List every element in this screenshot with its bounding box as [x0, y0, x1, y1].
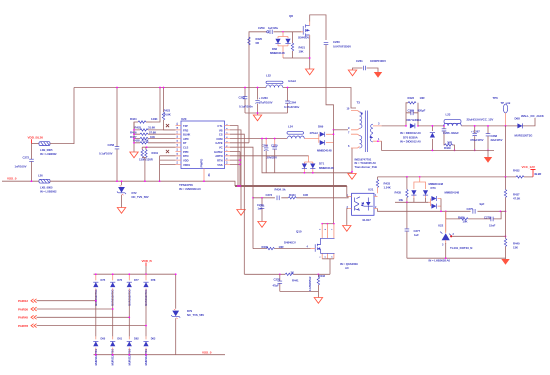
junction T3 return — [351, 171, 353, 173]
svg-text:MURS120T3G: MURS120T3G — [94, 349, 98, 366]
resistor R433 — [376, 177, 390, 193]
svg-text:20V/25V: 20V/25V — [267, 156, 278, 160]
wire VDD_BL26 to bead — [32, 143, 40, 145]
svg-text:IN = UVB0029 A0: IN = UVB0029 A0 — [179, 187, 201, 191]
wire top rail right of L22 — [283, 88, 356, 109]
wire gate-drive top — [249, 32, 301, 46]
svg-text:PAIR78: PAIR78 — [18, 324, 28, 328]
svg-text:4: 4 — [307, 246, 309, 249]
capacitor C274 — [257, 197, 266, 227]
diode D76 — [110, 273, 123, 306]
svg-text:NC_TVS_58V: NC_TVS_58V — [132, 195, 149, 199]
diode D77 — [127, 273, 140, 306]
wire secondary gnd rail — [433, 150, 494, 157]
port PAIR12 — [18, 299, 97, 303]
wire top rail VDD primary — [74, 87, 266, 89]
capacitor C269 — [262, 138, 269, 173]
diode D60 — [93, 336, 106, 365]
junction CLS — [146, 146, 148, 148]
resistor R428 — [133, 138, 176, 144]
svg-text:R431: R431 — [152, 151, 159, 155]
wire VC vertical — [230, 147, 253, 248]
svg-text:0.47uF/100v: 0.47uF/100v — [284, 105, 300, 109]
wire R420 down to rail — [248, 46, 250, 143]
svg-text:D4840CV: D4840CV — [284, 241, 296, 245]
capacitor C265 — [406, 108, 426, 115]
svg-text:T2P: T2P — [183, 124, 188, 128]
svg-text:L23: L23 — [446, 112, 451, 116]
no-connect PPD — [166, 150, 169, 153]
capacitor C268 — [486, 125, 503, 151]
ground cap bank — [253, 115, 261, 121]
svg-text:R424: R424 — [130, 117, 137, 121]
wire COM line to L24 — [230, 138, 287, 140]
svg-text:T3: T3 — [357, 101, 361, 105]
junction VSS/C258 — [116, 180, 118, 182]
port PAIR36 — [18, 307, 114, 311]
svg-text:R429: R429 — [444, 146, 451, 150]
svg-text:MURS120T3G: MURS120T3G — [111, 349, 115, 366]
svg-text:R434_5k: R434_5k — [275, 188, 286, 192]
capacitor C277 — [405, 202, 421, 258]
diode D74 dual — [428, 191, 459, 213]
ferrite bead L26 — [38, 174, 57, 194]
svg-text:18: 18 — [177, 126, 179, 129]
svg-text:3.3uH: 3.3uH — [288, 79, 296, 83]
pin numbers U20 — [176, 122, 229, 164]
wire CTL to opto rail — [230, 126, 238, 186]
svg-text:SI3445DV: SI3445DV — [298, 37, 309, 40]
svg-text:WALL_DC_JACK: WALL_DC_JACK — [521, 114, 545, 118]
resistor R440 — [504, 211, 520, 259]
svg-text:10R: 10R — [420, 96, 425, 100]
svg-text:3: 3 — [227, 132, 229, 134]
svg-text:C264: C264 — [290, 100, 297, 104]
svg-text:10: 10 — [347, 107, 350, 111]
svg-text:D67 B330A: D67 B330A — [407, 118, 423, 122]
svg-text:Transformer_PoE: Transformer_PoE — [355, 165, 378, 169]
wire current sense line — [244, 273, 330, 275]
wire CS long vertical — [230, 134, 244, 274]
wire primary return rail — [262, 139, 352, 173]
svg-text:TP_smt: TP_smt — [501, 101, 511, 105]
diode D79 TVS — [171, 273, 204, 354]
svg-text:D61: D61 — [117, 337, 122, 341]
svg-text:L26: L26 — [38, 174, 43, 178]
svg-text:IN = LXB0002: IN = LXB0002 — [40, 189, 57, 193]
svg-text:PWPD: PWPD — [200, 158, 204, 168]
svg-text:MMBD4148: MMBD4148 — [270, 51, 285, 55]
svg-text:5: 5 — [227, 140, 229, 142]
svg-text:C259: C259 — [258, 26, 265, 30]
resistor R439 — [262, 245, 284, 250]
wire ARTN to D71 — [230, 155, 309, 157]
svg-text:1: 1 — [320, 256, 322, 258]
wire VSS_0 rail right — [50, 181, 235, 186]
diode D69 dual — [305, 124, 334, 152]
svg-text:U20: U20 — [181, 117, 187, 121]
svg-text:D63: D63 — [151, 337, 156, 341]
pin stubs U20 right — [225, 126, 231, 165]
snubber C266 — [442, 125, 459, 145]
svg-text:C275: C275 — [467, 207, 474, 211]
svg-text:MMBD4148: MMBD4148 — [445, 191, 460, 195]
svg-text:D69: D69 — [318, 124, 324, 128]
inductor L23 — [444, 112, 494, 126]
svg-text:IN = LHB0028 A0: IN = LHB0028 A0 — [429, 259, 451, 263]
svg-text:R422: R422 — [408, 96, 415, 100]
capacitor C260 — [324, 40, 351, 130]
wire bridge col2 — [112, 291, 114, 336]
svg-text:C278: C278 — [484, 215, 491, 219]
svg-text:470uF/25V: 470uF/25V — [470, 138, 484, 142]
svg-text:C258: C258 — [108, 143, 115, 147]
svg-text:DTN: DTN — [183, 154, 188, 158]
svg-text:LXB_0805: LXB_0805 — [40, 186, 53, 190]
wire Q8 source bar — [283, 36, 310, 70]
ground sense — [314, 298, 322, 304]
pin PWPD stub Z1 — [203, 169, 211, 183]
capacitor C278 — [468, 211, 501, 227]
capacitor C264 — [284, 87, 300, 113]
svg-text:3: 3 — [442, 244, 444, 247]
wire DTN VDD VDD1 — [160, 156, 176, 181]
ground divider — [501, 259, 509, 265]
svg-text:C261: C261 — [356, 59, 363, 63]
transistor U22 TL431 — [438, 211, 506, 258]
svg-text:10R: 10R — [279, 245, 284, 249]
svg-text:47.5K: 47.5K — [513, 197, 520, 201]
svg-text:R442: R442 — [319, 274, 326, 278]
svg-text:D75: D75 — [101, 278, 106, 282]
resistor R421 — [291, 32, 305, 58]
svg-text:TL431_DOT23_N: TL431_DOT23_N — [450, 246, 472, 250]
capacitor C263 — [255, 87, 272, 113]
svg-text:143K: 143K — [151, 117, 158, 121]
wire GATE to Q8 drive — [230, 142, 249, 144]
wire opto emitter to ground — [347, 209, 348, 226]
svg-text:VC: VC — [219, 146, 223, 150]
junction bank bottom — [257, 112, 259, 114]
svg-text:6: 6 — [227, 145, 229, 147]
junction VSS/D72 — [121, 180, 123, 182]
svg-text:CS: CS — [219, 133, 223, 137]
svg-text:1000PF/2KV: 1000PF/2KV — [370, 59, 386, 63]
resistor R426 — [130, 130, 176, 135]
wire secondary top to D67 — [382, 125, 406, 127]
wire opto out to TL431 line — [378, 209, 506, 212]
svg-text:130R/130R: 130R/130R — [139, 157, 153, 161]
svg-text:10R: 10R — [303, 193, 308, 197]
svg-text:1uF: 1uF — [258, 207, 263, 211]
wire VCC_12V rail — [378, 176, 517, 178]
capacitor C270 — [267, 138, 278, 173]
svg-text:D73: D73 — [431, 186, 436, 190]
svg-text:10: 10 — [177, 161, 179, 164]
svg-text:ARTN: ARTN — [215, 154, 222, 158]
wire C260 to T3 pin9 — [334, 129, 349, 131]
svg-text:1nF/100V: 1nF/100V — [15, 164, 27, 168]
svg-text:2: 2 — [325, 256, 327, 258]
ground below Q8 — [306, 69, 314, 75]
wire opto collector — [347, 186, 348, 197]
resistor R422 — [406, 96, 425, 126]
wire bridge top rail — [94, 273, 176, 275]
svg-text:CLS: CLS — [183, 146, 188, 150]
resistor R430 — [141, 147, 146, 157]
svg-text:5: 5 — [320, 228, 322, 230]
wire CLS line — [142, 146, 175, 148]
svg-text:IN = QXA0009: IN = QXA0009 — [340, 262, 358, 266]
svg-text:22uH/3.5A/VCC_12V: 22uH/3.5A/VCC_12V — [467, 118, 494, 122]
svg-text:+ C267: + C267 — [471, 129, 480, 133]
transistor Q10 — [284, 223, 358, 274]
svg-text:11: 11 — [177, 156, 179, 159]
svg-text:47pF: 47pF — [273, 283, 280, 287]
svg-text:VDD1: VDD1 — [183, 163, 191, 167]
junction TL431 top — [445, 210, 447, 212]
wire secondary bottom to gnd rail — [382, 141, 433, 150]
svg-text:C266 .022uF: C266 .022uF — [443, 131, 459, 135]
wire bead to top rail — [50, 88, 74, 144]
svg-text:7: 7 — [227, 149, 229, 151]
svg-text:PAIR36: PAIR36 — [18, 307, 28, 311]
svg-text:3: 3 — [331, 256, 333, 258]
svg-text:PAIR12: PAIR12 — [18, 299, 28, 303]
svg-text:VDD_B: VDD_B — [142, 259, 153, 263]
diode D73 dual — [411, 177, 443, 202]
junction source bar — [309, 57, 311, 59]
wire classification bus — [133, 122, 135, 152]
svg-text:PAIR45: PAIR45 — [18, 316, 28, 320]
svg-text:VSS_0: VSS_0 — [202, 350, 212, 354]
svg-text:14: 14 — [176, 143, 179, 146]
svg-text:MMBD4148: MMBD4148 — [317, 149, 332, 153]
net label VDD_B — [142, 259, 153, 274]
svg-text:MMBD4148: MMBD4148 — [319, 166, 334, 170]
capacitor C258 — [99, 88, 119, 182]
svg-text:GATE: GATE — [215, 141, 222, 145]
svg-text:9pF: 9pF — [480, 202, 485, 206]
svg-text:D60: D60 — [101, 337, 106, 341]
svg-text:22uF/25V: 22uF/25V — [491, 138, 503, 142]
svg-text:CTL: CTL — [217, 124, 222, 128]
port PAIR78 — [18, 324, 147, 328]
svg-text:PPD: PPD — [183, 150, 188, 154]
wire FRS bus drop — [152, 88, 160, 123]
svg-text:16: 16 — [177, 135, 179, 138]
svg-text:EL817: EL817 — [363, 218, 372, 222]
wire bridge bottom rail — [94, 354, 226, 356]
svg-text:U21: U21 — [368, 188, 374, 192]
svg-text:IN = DIO0012 A0: IN = DIO0012 A0 — [400, 139, 421, 143]
wire sense gnd bar — [280, 291, 319, 297]
svg-text:TP6: TP6 — [493, 96, 499, 100]
ferrite bead L25 — [39, 142, 57, 156]
transistor Q8 — [289, 14, 326, 40]
junction bus APD — [133, 138, 135, 140]
svg-text:7: 7 — [348, 130, 350, 134]
ground VB branch — [237, 210, 245, 216]
wire bridge col4 — [145, 291, 147, 336]
wire VB down to ground — [230, 130, 241, 210]
resistor R442 — [309, 273, 326, 291]
svg-text:VCC_12V: VCC_12V — [522, 165, 536, 169]
svg-text:49.9R: 49.9R — [534, 172, 541, 176]
resistor R427 — [130, 135, 176, 140]
svg-text:BLNK: BLNK — [183, 133, 190, 137]
svg-text:6: 6 — [325, 228, 327, 230]
svg-text:2: 2 — [453, 233, 455, 236]
svg-text:L24: L24 — [288, 124, 293, 128]
wire cap bank bottom bar — [245, 113, 288, 115]
resistor R441 — [285, 270, 299, 282]
svg-text:47.5K: 47.5K — [142, 138, 149, 142]
svg-text:Q8: Q8 — [289, 14, 293, 18]
part note D67/D70 — [400, 131, 421, 143]
pin stubs U20 left — [176, 126, 182, 165]
svg-text:IN = DIO0012 A0: IN = DIO0012 A0 — [400, 131, 421, 135]
svg-text:15nF: 15nF — [489, 223, 496, 227]
ground classification bus — [130, 152, 138, 158]
junction bus BLNK — [133, 133, 135, 135]
wire RC compensation line — [253, 197, 348, 198]
junction VSS/C272 — [31, 180, 33, 182]
capacitor C259 — [258, 26, 279, 34]
diode D67 — [407, 118, 423, 128]
svg-text:Z1: Z1 — [207, 173, 211, 177]
wire gate drive Q10 — [253, 248, 311, 250]
svg-text:4: 4 — [226, 136, 229, 138]
svg-text:VSS_0: VSS_0 — [7, 176, 17, 180]
ground opto emitter — [343, 226, 351, 232]
wire R430/R431 to VSS rail — [144, 158, 146, 182]
svg-text:MURS120T3G: MURS120T3G — [515, 134, 533, 138]
inductor L24 — [287, 124, 304, 138]
svg-text:LXB_0805: LXB_0805 — [40, 148, 53, 152]
svg-text:D77: D77 — [134, 278, 139, 282]
diode D70 — [430, 126, 435, 150]
svg-text:A0: A0 — [345, 266, 349, 270]
capacitor C275 — [467, 202, 485, 214]
inductor L22 — [266, 73, 296, 87]
power flag VCC_12V — [522, 165, 536, 177]
svg-text:D78: D78 — [151, 278, 156, 282]
wire bridge col3 — [128, 291, 130, 336]
svg-text:7: 7 — [331, 228, 333, 230]
part label TPS23756 — [179, 183, 201, 191]
svg-text:10k: 10k — [399, 198, 404, 202]
svg-text:D62: D62 — [134, 337, 139, 341]
resistor R429 snubber — [444, 141, 455, 152]
svg-text:1: 1 — [227, 123, 229, 125]
svg-text:NC_TVS_58V: NC_TVS_58V — [187, 313, 204, 317]
svg-text:APD: APD — [183, 137, 189, 141]
svg-text:13: 13 — [177, 148, 179, 151]
svg-text:VDD_BL26: VDD_BL26 — [28, 135, 44, 139]
capacitor C267 — [470, 125, 484, 151]
wire VSS_0 rail — [2, 180, 39, 182]
svg-text:C262: C262 — [239, 96, 246, 100]
svg-text:+ C263: + C263 — [259, 96, 268, 100]
diode D78 — [143, 274, 156, 306]
diode D62 — [127, 336, 140, 365]
svg-text:C272: C272 — [23, 156, 30, 160]
svg-text:C270: C270 — [271, 143, 278, 147]
wire R435 node — [395, 201, 428, 203]
capacitor C261 — [348, 59, 386, 78]
svg-text:820pF: 820pF — [418, 108, 426, 112]
svg-text:COM: COM — [216, 137, 223, 141]
svg-text:VSS: VSS — [217, 163, 222, 167]
svg-text:12: 12 — [177, 152, 179, 155]
capacitor C272 — [15, 144, 34, 182]
svg-text:470uH: 470uH — [310, 131, 318, 135]
svg-text:1uF/16v: 1uF/16v — [268, 26, 279, 30]
testpoint TP6 — [493, 96, 511, 127]
svg-text:D76: D76 — [117, 278, 122, 282]
svg-text:15: 15 — [177, 139, 179, 142]
diode D66 dual — [270, 31, 291, 58]
diode D68 — [515, 116, 533, 137]
resistor R431 — [139, 147, 158, 161]
junction bus DT — [133, 142, 135, 144]
resistor R424 — [130, 117, 158, 130]
svg-text:17: 17 — [177, 130, 179, 133]
capacitor C273 — [266, 193, 280, 200]
wire output rail — [461, 118, 535, 126]
junction bus FRS — [133, 129, 135, 131]
diode D75 — [93, 273, 106, 306]
svg-text:RTN: RTN — [217, 159, 222, 163]
resistor R423 — [162, 87, 175, 130]
svg-text:L22: L22 — [266, 73, 271, 77]
svg-text:10K: 10K — [299, 50, 304, 54]
junction pin9 line — [333, 129, 335, 131]
svg-text:1: 1 — [378, 137, 380, 141]
resistor R436 — [446, 211, 469, 223]
svg-text:57.6K: 57.6K — [149, 130, 156, 134]
svg-text:D68: D68 — [515, 116, 521, 120]
junction top rail / C258 — [116, 87, 118, 89]
wire switch node — [418, 125, 444, 127]
svg-text:R435: R435 — [395, 190, 402, 194]
wire VCC_12V feed — [505, 126, 507, 177]
ground secondary — [484, 157, 492, 163]
svg-text:3: 3 — [378, 122, 380, 126]
ground T3 return — [348, 174, 356, 180]
port PAIR45 — [18, 315, 130, 319]
opto U21 EL817 — [347, 188, 378, 222]
svg-text:GATE2: GATE2 — [214, 150, 223, 154]
svg-text:10K: 10K — [463, 220, 468, 224]
resistor R425 — [134, 126, 176, 131]
svg-text:6: 6 — [348, 144, 350, 148]
junction D71 anodes — [304, 172, 306, 174]
svg-text:2: 2 — [227, 127, 229, 129]
capacitor C276 — [273, 273, 283, 291]
svg-text:2K: 2K — [291, 270, 295, 274]
svg-text:C276: C276 — [274, 278, 281, 282]
svg-text:DT: DT — [183, 141, 187, 145]
transformer T3 — [347, 101, 382, 169]
svg-text:13K: 13K — [513, 246, 518, 250]
diode D61 — [110, 336, 123, 365]
net label VDD_BL26 — [28, 135, 44, 143]
svg-text:47uF/100V: 47uF/100V — [259, 101, 273, 105]
svg-text:8: 8 — [227, 153, 229, 155]
svg-text:R434: R434 — [289, 193, 296, 197]
